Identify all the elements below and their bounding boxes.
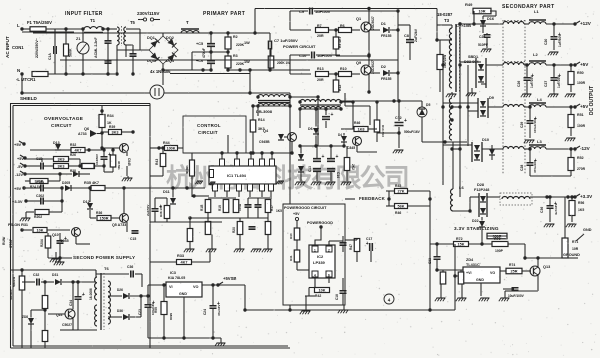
svg-text:3.3V STABILIZING: 3.3V STABILIZING — [454, 226, 499, 231]
svg-text:C12: C12 — [395, 116, 402, 120]
svg-text:R33: R33 — [177, 254, 184, 258]
svg-text:+5V: +5V — [14, 186, 22, 191]
svg-text:PS-ON R31: PS-ON R31 — [8, 223, 28, 227]
svg-text:R35 4K7: R35 4K7 — [84, 181, 99, 185]
svg-text:+5V: +5V — [580, 62, 589, 67]
svg-text:D36: D36 — [117, 309, 123, 313]
svg-text:680R: 680R — [169, 313, 173, 321]
svg-text:R79: R79 — [494, 237, 501, 241]
svg-text:+3.3V: +3.3V — [12, 199, 23, 204]
svg-text:C24: C24 — [203, 309, 207, 315]
svg-text:-L MTCR1: -L MTCR1 — [16, 77, 36, 82]
svg-text:Z1: Z1 — [76, 37, 80, 41]
svg-text:27K: 27K — [398, 190, 405, 194]
svg-text:D31: D31 — [52, 273, 58, 277]
svg-text:CON1: CON1 — [12, 45, 24, 50]
svg-text:10R: 10R — [479, 10, 486, 14]
svg-text:200K 1W: 200K 1W — [277, 61, 290, 65]
svg-text:4K7B1: 4K7B1 — [117, 161, 121, 170]
svg-text:-12V: -12V — [15, 173, 23, 177]
svg-text:T1: T1 — [90, 18, 96, 23]
svg-text:R56: R56 — [578, 201, 584, 205]
svg-text:CONTROL: CONTROL — [197, 123, 221, 128]
svg-text:+5VSB: +5VSB — [223, 276, 236, 281]
svg-text:AC INPUT: AC INPUT — [5, 36, 10, 58]
svg-text:C27: C27 — [544, 81, 548, 87]
svg-text:+3.3V: +3.3V — [580, 194, 593, 199]
svg-text:T5: T5 — [130, 20, 136, 25]
svg-text:R41: R41 — [289, 255, 293, 261]
svg-text:CIRCUIT: CIRCUIT — [51, 123, 72, 128]
svg-text:R49: R49 — [465, 2, 473, 7]
svg-text:N: N — [17, 68, 20, 73]
svg-text:C17: C17 — [366, 237, 372, 241]
svg-text:+: + — [336, 154, 339, 160]
svg-text:560K: 560K — [69, 48, 73, 57]
svg-text:R44: R44 — [163, 141, 170, 145]
svg-text:2uF/2kV: 2uF/2kV — [414, 28, 418, 42]
svg-text:1uF/50V: 1uF/50V — [558, 34, 562, 47]
svg-text:LP339: LP339 — [313, 260, 326, 265]
svg-text:+5V: +5V — [293, 212, 300, 216]
svg-text:10uF/100V: 10uF/100V — [508, 294, 525, 298]
svg-text:R202: R202 — [34, 215, 42, 219]
svg-text:SECOND POWER SUPPLY: SECOND POWER SUPPLY — [73, 255, 135, 260]
svg-text:Q4: Q4 — [263, 129, 269, 133]
svg-text:56K/1W: 56K/1W — [12, 277, 16, 287]
svg-text:4: 4 — [314, 274, 316, 278]
svg-text:VI: VI — [169, 285, 173, 289]
svg-text:D28: D28 — [477, 183, 484, 187]
svg-text:TL431C: TL431C — [466, 263, 480, 267]
svg-text:D1: D1 — [381, 22, 386, 26]
svg-text:D16: D16 — [487, 17, 494, 21]
svg-text:FR155: FR155 — [381, 77, 392, 81]
svg-text:D22: D22 — [472, 219, 479, 223]
svg-text:R6: R6 — [340, 24, 345, 28]
svg-text:R72: R72 — [456, 237, 463, 241]
svg-text:20R: 20R — [317, 34, 324, 38]
svg-text:2SC5027: 2SC5027 — [371, 16, 375, 30]
svg-text:10R: 10R — [572, 247, 579, 251]
svg-text:VO: VO — [193, 285, 199, 289]
svg-text:+5V: +5V — [17, 157, 24, 161]
svg-text:+: + — [108, 152, 111, 158]
svg-text:D11: D11 — [163, 190, 170, 194]
svg-text:25R: 25R — [511, 270, 518, 274]
svg-text:1W: 1W — [244, 41, 250, 45]
svg-text:C26: C26 — [517, 81, 521, 87]
svg-text:+: + — [322, 154, 325, 160]
svg-text:SHIELD: SHIELD — [20, 96, 38, 101]
svg-text:R9 4K7: R9 4K7 — [338, 36, 342, 48]
svg-text:100K: 100K — [166, 147, 175, 151]
svg-text:C16/50V: C16/50V — [95, 154, 99, 165]
svg-text:4K7: 4K7 — [181, 261, 188, 265]
svg-text:C14: C14 — [336, 172, 340, 178]
svg-text:C945: C945 — [127, 158, 131, 166]
svg-text:C8: C8 — [404, 34, 409, 38]
svg-text:10K: 10K — [37, 229, 44, 233]
svg-text:R74: R74 — [509, 263, 515, 267]
svg-text:R46: R46 — [354, 121, 360, 125]
svg-text:T3: T3 — [444, 18, 450, 23]
svg-text:R36: R36 — [96, 211, 102, 215]
svg-text:SECONDARY PART: SECONDARY PART — [502, 4, 555, 10]
svg-text:270R: 270R — [577, 167, 586, 171]
svg-text:220V/250V~: 220V/250V~ — [35, 38, 39, 58]
svg-text:1W: 1W — [244, 60, 250, 64]
svg-text:C36: C36 — [540, 207, 544, 213]
svg-text:A733: A733 — [78, 132, 87, 136]
svg-text:3nF/1kV: 3nF/1kV — [9, 289, 13, 300]
svg-text:D4: D4 — [338, 133, 342, 137]
svg-text:3K9: 3K9 — [58, 158, 65, 162]
svg-text:Q1: Q1 — [356, 17, 361, 21]
svg-text:C15: C15 — [130, 237, 136, 241]
svg-text:IC1 TL494: IC1 TL494 — [227, 173, 247, 178]
svg-text:F1 T5A/250V: F1 T5A/250V — [27, 20, 52, 25]
svg-text:R71: R71 — [572, 240, 578, 244]
svg-text:1uF/16V: 1uF/16V — [557, 75, 561, 88]
svg-text:R19: R19 — [218, 205, 222, 211]
svg-text:VO: VO — [490, 271, 495, 275]
svg-text:R34: R34 — [107, 114, 114, 118]
svg-text:R13 3K3: R13 3K3 — [381, 125, 385, 137]
svg-text:R40: R40 — [289, 233, 293, 239]
svg-text:R17: R17 — [270, 205, 274, 211]
svg-text:R46: R46 — [395, 211, 401, 215]
svg-text:GROUND: GROUND — [563, 253, 580, 257]
svg-text:47u/16V: 47u/16V — [217, 305, 221, 316]
svg-text:18-0086: 18-0086 — [89, 288, 93, 300]
svg-text:+: + — [404, 118, 407, 124]
svg-text:R3: R3 — [233, 54, 238, 58]
svg-text:2K2: 2K2 — [351, 164, 355, 170]
svg-text:C32: C32 — [33, 273, 39, 277]
svg-text:D12: D12 — [83, 200, 90, 204]
svg-text:R47: R47 — [349, 244, 353, 250]
svg-text:-5V: -5V — [17, 165, 23, 169]
svg-text:R38 10K: R38 10K — [159, 204, 163, 217]
svg-text:INPUT FILTER: INPUT FILTER — [65, 11, 103, 17]
svg-text:R43: R43 — [155, 159, 159, 165]
svg-text:L2: L2 — [533, 52, 538, 57]
svg-text:C845: C845 — [347, 146, 355, 150]
svg-text:+12V: +12V — [580, 21, 592, 26]
svg-text:C5027: C5027 — [62, 323, 72, 327]
svg-text:C7 1uF/250V: C7 1uF/250V — [274, 38, 298, 43]
svg-text:230V/115V: 230V/115V — [137, 11, 160, 16]
svg-text:C33: C33 — [428, 258, 432, 264]
svg-text:L6: L6 — [459, 185, 464, 190]
svg-text:470uF: 470uF — [202, 48, 206, 58]
svg-text:R13: R13 — [317, 67, 324, 71]
svg-text:R59: R59 — [154, 307, 158, 313]
svg-text:+VI: +VI — [466, 271, 472, 275]
svg-text:R14: R14 — [258, 118, 265, 122]
svg-text:POWERGOOD: POWERGOOD — [307, 221, 333, 225]
svg-text:D26: D26 — [117, 288, 123, 292]
svg-text:FEEDBACK: FEEDBACK — [359, 196, 386, 201]
svg-text:Q10: Q10 — [52, 233, 59, 237]
svg-text:L3: L3 — [537, 139, 542, 144]
svg-text:C36: C36 — [127, 265, 133, 269]
svg-text:GND: GND — [179, 292, 187, 296]
svg-text:IC2: IC2 — [317, 254, 324, 259]
svg-text:Q6: Q6 — [84, 127, 89, 131]
svg-text:Q5 A733: Q5 A733 — [112, 223, 126, 227]
svg-text:C18: C18 — [335, 294, 339, 300]
svg-text:POWERGOOD CIRCUIT: POWERGOOD CIRCUIT — [284, 206, 327, 210]
svg-text:PRIMARY PART: PRIMARY PART — [203, 11, 245, 17]
svg-text:+C5: +C5 — [196, 42, 203, 46]
svg-text:D6: D6 — [308, 127, 313, 131]
svg-text:RUN/: RUN/ — [2, 237, 6, 245]
svg-text:C1A: C1A — [48, 53, 52, 60]
svg-text:R39: R39 — [109, 125, 115, 129]
svg-text:R12: R12 — [338, 85, 342, 91]
svg-text:FR155: FR155 — [381, 34, 392, 38]
svg-text:R42: R42 — [315, 294, 321, 298]
svg-text:D2: D2 — [381, 65, 386, 69]
svg-text:+: + — [64, 236, 67, 242]
svg-text:ACML 2.2nF: ACML 2.2nF — [94, 36, 98, 58]
svg-text:Q9: Q9 — [356, 61, 361, 65]
svg-text:2u2/50V: 2u2/50V — [146, 205, 150, 216]
svg-text:3K3: 3K3 — [112, 131, 119, 135]
svg-text:C203: C203 — [36, 181, 44, 185]
svg-text:4u7/16V: 4u7/16V — [554, 204, 558, 215]
svg-text:18-0287: 18-0287 — [437, 12, 453, 17]
svg-text:STOP: STOP — [9, 238, 13, 248]
svg-text:3K3: 3K3 — [58, 165, 65, 169]
svg-text:D9: D9 — [489, 96, 494, 100]
svg-text:C29: C29 — [520, 122, 524, 128]
svg-text:-12V: -12V — [580, 146, 591, 151]
svg-text:+: + — [331, 112, 334, 118]
svg-text:3K0B1: 3K0B1 — [185, 165, 189, 174]
svg-text:+5V: +5V — [14, 142, 22, 147]
svg-text:D13: D13 — [53, 141, 60, 145]
svg-text:1: 1 — [314, 249, 316, 253]
svg-text:R7: R7 — [317, 24, 322, 28]
svg-text:R52: R52 — [577, 156, 584, 160]
svg-text:POWER CIRCUIT: POWER CIRCUIT — [283, 44, 316, 49]
svg-text:GND: GND — [583, 228, 592, 232]
svg-text:CIRCUIT: CIRCUIT — [198, 130, 218, 135]
svg-text:15K: 15K — [458, 243, 465, 247]
svg-text:100P: 100P — [495, 249, 504, 253]
svg-text:1K5: 1K5 — [276, 209, 282, 213]
svg-text:C34: C34 — [69, 300, 73, 306]
svg-text:R32: R32 — [70, 143, 76, 147]
svg-text:C20: C20 — [544, 39, 548, 45]
svg-text:C28: C28 — [520, 165, 524, 171]
svg-text:L: L — [17, 23, 20, 28]
svg-text:100uF/16V: 100uF/16V — [533, 118, 537, 133]
svg-text:R2: R2 — [233, 35, 238, 39]
svg-text:ZD8: ZD8 — [22, 315, 28, 319]
svg-text:470u/16V: 470u/16V — [533, 160, 537, 173]
svg-text:DQ1: DQ1 — [147, 36, 155, 40]
svg-text:R20: R20 — [232, 227, 236, 233]
svg-text:D205: D205 — [62, 181, 70, 185]
svg-text:R10: R10 — [340, 67, 347, 71]
svg-text:500uF/16V: 500uF/16V — [404, 130, 421, 134]
svg-text:C945B: C945B — [259, 140, 270, 144]
svg-text:2: 2 — [328, 249, 330, 253]
svg-text:1uF/16V: 1uF/16V — [530, 75, 534, 88]
svg-text:R204: R204 — [40, 239, 44, 247]
svg-text:DC OUTPUT: DC OUTPUT — [589, 86, 595, 115]
svg-text:R1B: R1B — [200, 204, 204, 211]
svg-text:R51: R51 — [577, 113, 584, 117]
svg-text:OVERVOLTAGE: OVERVOLTAGE — [44, 116, 84, 122]
svg-text:2SC5027: 2SC5027 — [371, 60, 375, 74]
svg-text:150R: 150R — [99, 217, 108, 221]
svg-text:100R: 100R — [577, 81, 586, 85]
svg-text:R26: R26 — [70, 153, 76, 157]
svg-text:IC3: IC3 — [170, 271, 176, 275]
svg-text:C23: C23 — [138, 309, 142, 315]
svg-text:100B: 100B — [238, 203, 242, 211]
svg-text:10K: 10K — [319, 289, 326, 293]
svg-text:ZD4: ZD4 — [466, 258, 474, 262]
svg-text:1K8: 1K8 — [358, 128, 365, 132]
svg-text:6: 6 — [328, 274, 330, 278]
svg-text:R45: R45 — [395, 184, 401, 188]
svg-text:C202: C202 — [36, 194, 44, 198]
svg-text:F12P248: F12P248 — [474, 188, 489, 192]
svg-text:T6: T6 — [104, 266, 109, 271]
svg-text:KIA 78L05: KIA 78L05 — [168, 276, 185, 280]
svg-text:D10: D10 — [482, 138, 489, 142]
svg-text:GND: GND — [476, 278, 484, 282]
